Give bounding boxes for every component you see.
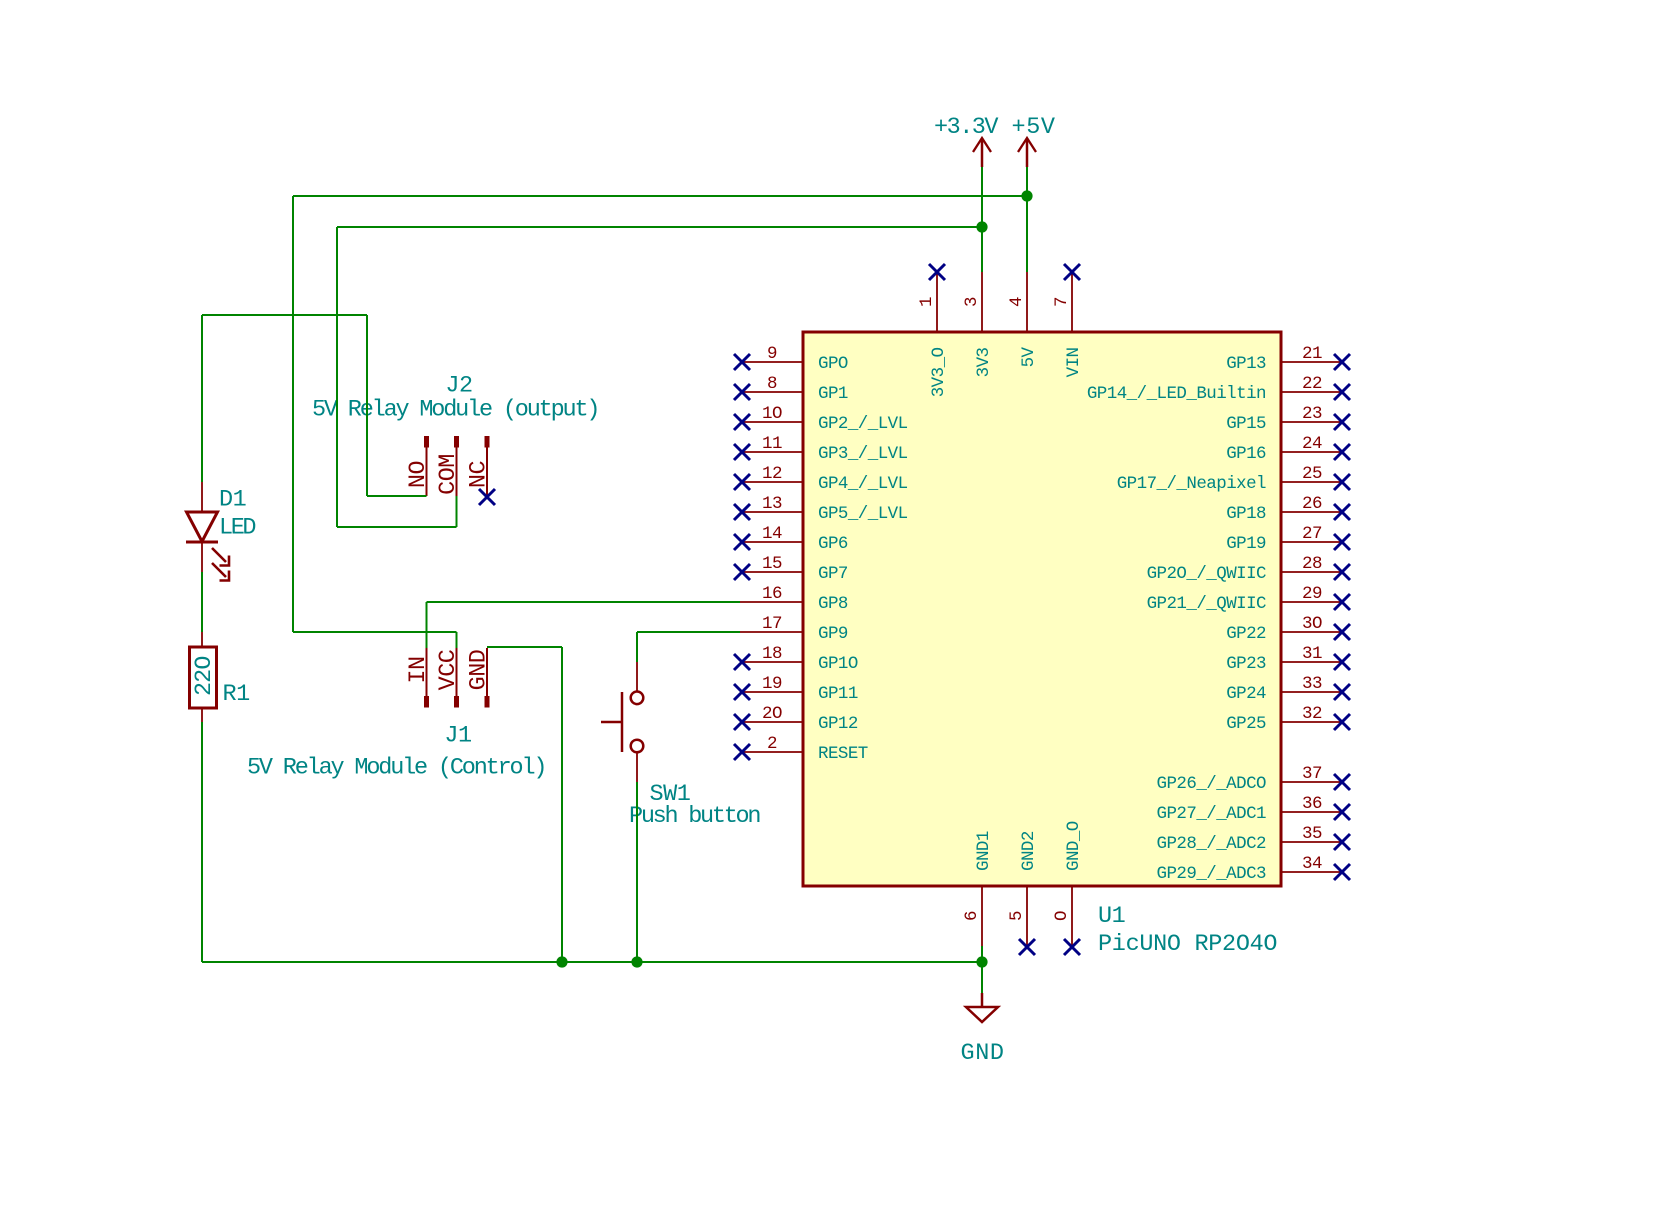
diode D1 LED (201, 482, 203, 512)
wire J1 GND vertical (561, 647, 563, 962)
U1 pin 35 GP28_/_ADC2 (right) (1281, 841, 1340, 843)
svg-text:9: 9 (767, 344, 777, 364)
wire VCC stub to J1 VCC (456, 632, 458, 648)
svg-text:COM: COM (435, 454, 462, 495)
wire +3.3V left vertical (336, 227, 338, 527)
svg-text:GP24: GP24 (1226, 684, 1266, 704)
svg-text:1: 1 (917, 297, 937, 307)
svg-text:GP2O_/_QWIIC: GP2O_/_QWIIC (1147, 564, 1266, 584)
U1 pin 12 GP4_/_LVL (left) (740, 481, 803, 483)
U1 pin 26 GP18 (right) (1281, 511, 1340, 513)
wire +5V horizontal (293, 195, 1027, 197)
wire SW1 to ground bus (636, 782, 638, 962)
U1 pin 3 3V3 (top) (981, 272, 983, 332)
svg-text:3V3_O: 3V3_O (929, 347, 949, 397)
svg-text:5V: 5V (1019, 346, 1039, 367)
U1 pin 23 GP15 (right) (1281, 421, 1340, 423)
svg-text:37: 37 (1302, 764, 1322, 784)
U1 pin 5 GND2 (bottom) (1026, 886, 1028, 946)
junction ground bus at J1 GND wire (556, 956, 567, 967)
junction ground bus at SW1 wire (631, 956, 642, 967)
svg-text:RESET: RESET (818, 744, 868, 764)
svg-text:25: 25 (1302, 464, 1322, 484)
svg-text:3O: 3O (1302, 614, 1322, 634)
svg-text:2: 2 (767, 734, 777, 754)
wire +5V left vertical (292, 196, 294, 632)
svg-text:R1: R1 (223, 681, 250, 708)
svg-text:11: 11 (762, 434, 782, 454)
svg-text:6: 6 (962, 911, 982, 921)
svg-text:GP25: GP25 (1226, 714, 1266, 734)
svg-text:GP11: GP11 (818, 684, 858, 704)
U1 pin 6 GND1 (bottom) (981, 886, 983, 946)
svg-text:NC: NC (466, 461, 493, 489)
svg-text:34: 34 (1302, 854, 1322, 874)
svg-text:GP18: GP18 (1226, 504, 1266, 524)
svg-text:27: 27 (1302, 524, 1322, 544)
svg-text:GP6: GP6 (818, 534, 848, 554)
svg-text:PicUNO RP2O4O: PicUNO RP2O4O (1098, 931, 1277, 958)
svg-text:GP8: GP8 (818, 594, 848, 614)
U1 pin 25 GP17_/_Neapixel (right) (1281, 481, 1340, 483)
U1 pin O GND_O (bottom) (1071, 886, 1073, 946)
svg-text:GP16: GP16 (1226, 444, 1266, 464)
junction +5V net (1021, 190, 1032, 201)
wire NO vertical (366, 315, 368, 496)
svg-text:5V Relay Module (Control): 5V Relay Module (Control) (247, 755, 547, 782)
svg-text:14: 14 (762, 524, 782, 544)
svg-text:LED: LED (219, 515, 256, 542)
svg-text:GP9: GP9 (818, 624, 848, 644)
svg-text:J2: J2 (445, 373, 472, 400)
svg-text:GND2: GND2 (1019, 831, 1039, 871)
junction ground bus at GND1 (976, 956, 987, 967)
wire +5V vertical to pin 4 (1026, 167, 1028, 272)
svg-text:GP2_/_LVL: GP2_/_LVL (818, 414, 908, 434)
svg-text:1O: 1O (762, 404, 782, 424)
svg-text:22O: 22O (191, 656, 218, 696)
svg-text:29: 29 (1302, 584, 1322, 604)
U1 pin 27 GP19 (right) (1281, 541, 1340, 543)
svg-text:GP28_/_ADC2: GP28_/_ADC2 (1157, 834, 1267, 854)
U1 pin 37 GP26_/_ADCO (right) (1281, 781, 1340, 783)
switch SW1 Push button (636, 662, 638, 691)
U1 pin 4 5V (top) (1026, 272, 1028, 332)
svg-text:GP1O: GP1O (818, 654, 858, 674)
wire +3.3V vertical to pin 3 (981, 167, 983, 272)
wire GP9 stub to SW1 (636, 632, 638, 662)
svg-text:17: 17 (762, 614, 782, 634)
wire GP8 horizontal (427, 601, 741, 603)
svg-text:GND1: GND1 (974, 831, 994, 871)
U1 pin 2 RESET (left) (740, 751, 803, 753)
wire R1 to ground bus (201, 722, 203, 962)
svg-text:GP4_/_LVL: GP4_/_LVL (818, 474, 908, 494)
U1 pin 1 3V3_O (top) (936, 272, 938, 332)
svg-text:+3.3V: +3.3V (934, 114, 998, 141)
wire COM stub from J2 COM (456, 496, 458, 527)
junction +3.3V net (976, 221, 987, 232)
U1 pin 11 GP3_/_LVL (left) (740, 451, 803, 453)
svg-text:GND: GND (961, 1040, 1004, 1067)
U1 pin 15 GP7 (left) (740, 571, 803, 573)
resistor R1 220 (201, 632, 203, 648)
svg-text:22: 22 (1302, 374, 1322, 394)
power +3.3V symbol (981, 138, 984, 167)
svg-text:NO: NO (405, 461, 432, 488)
U1 pin 17 GP9 (left) (740, 631, 803, 633)
svg-text:GND: GND (466, 650, 493, 691)
svg-text:16: 16 (762, 584, 782, 604)
svg-text:23: 23 (1302, 404, 1322, 424)
wire COM horizontal (337, 526, 457, 528)
U1 pin 21 GP13 (right) (1281, 361, 1340, 363)
svg-text:GPO: GPO (818, 354, 848, 374)
J2 pin 2 COM (454, 436, 459, 448)
U1 pin 33 GP24 (right) (1281, 691, 1340, 693)
wire GP9 horizontal (637, 631, 740, 633)
svg-text:8: 8 (767, 374, 777, 394)
wire ground bus horizontal (202, 961, 982, 963)
U1 pin 24 GP16 (right) (1281, 451, 1340, 453)
svg-text:J1: J1 (444, 723, 471, 750)
svg-text:GP15: GP15 (1226, 414, 1266, 434)
U1 pin 31 GP23 (right) (1281, 661, 1340, 663)
svg-text:3: 3 (962, 297, 982, 307)
svg-text:18: 18 (762, 644, 782, 664)
svg-text:24: 24 (1302, 434, 1322, 454)
svg-text:+5V: +5V (1012, 114, 1055, 141)
U1 pin 22 GP14_/_LED_Builtin (right) (1281, 391, 1340, 393)
IC U1 body (PicUNO RP2040) (803, 332, 1281, 886)
U1 pin 18 GP1O (left) (740, 661, 803, 663)
svg-text:Push button: Push button (629, 803, 761, 830)
svg-text:36: 36 (1302, 794, 1322, 814)
wire D1 to R1 (201, 572, 203, 632)
svg-text:U1: U1 (1098, 903, 1125, 930)
U1 pin 34 GP29_/_ADC3 (right) (1281, 871, 1340, 873)
wire J1 GND horizontal (487, 646, 562, 648)
J2 pin 3 NC (485, 436, 490, 448)
svg-text:GP19: GP19 (1226, 534, 1266, 554)
U1 pin 2O GP12 (left) (740, 721, 803, 723)
svg-text:35: 35 (1302, 824, 1322, 844)
U1 pin 8 GP1 (left) (740, 391, 803, 393)
ground GND symbol (981, 993, 984, 1007)
svg-text:VIN: VIN (1064, 347, 1084, 377)
wire GND1 to ground symbol (981, 946, 983, 993)
svg-text:GP5_/_LVL: GP5_/_LVL (818, 504, 908, 524)
svg-text:28: 28 (1302, 554, 1322, 574)
svg-text:33: 33 (1302, 674, 1322, 694)
svg-text:GP1: GP1 (818, 384, 848, 404)
svg-text:26: 26 (1302, 494, 1322, 514)
svg-text:GP22: GP22 (1226, 624, 1266, 644)
svg-text:GP14_/_LED_Builtin: GP14_/_LED_Builtin (1087, 384, 1266, 404)
svg-text:D1: D1 (219, 487, 246, 514)
svg-text:VCC: VCC (435, 649, 462, 690)
svg-text:GND_O: GND_O (1064, 821, 1084, 871)
U1 pin 1O GP2_/_LVL (left) (740, 421, 803, 423)
U1 pin 28 GP2O_/_QWIIC (right) (1281, 571, 1340, 573)
svg-text:12: 12 (762, 464, 782, 484)
svg-text:13: 13 (762, 494, 782, 514)
U1 pin 3O GP22 (right) (1281, 631, 1340, 633)
U1 pin 32 GP25 (right) (1281, 721, 1340, 723)
U1 pin 16 GP8 (left) (740, 601, 803, 603)
svg-text:5V Relay Module (output): 5V Relay Module (output) (312, 397, 600, 424)
svg-text:O: O (1052, 911, 1072, 921)
svg-text:GP27_/_ADC1: GP27_/_ADC1 (1157, 804, 1267, 824)
svg-text:5: 5 (1007, 911, 1027, 921)
svg-text:GP13: GP13 (1226, 354, 1266, 374)
svg-text:19: 19 (762, 674, 782, 694)
U1 pin 9 GPO (left) (740, 361, 803, 363)
svg-text:7: 7 (1052, 297, 1072, 307)
svg-text:GP17_/_Neapixel: GP17_/_Neapixel (1117, 474, 1266, 494)
svg-text:GP7: GP7 (818, 564, 848, 584)
svg-text:4: 4 (1007, 297, 1027, 307)
svg-text:3V3: 3V3 (974, 347, 994, 377)
wire anode horizontal (202, 314, 367, 316)
U1 pin 14 GP6 (left) (740, 541, 803, 543)
wire anode vertical to D1 (201, 315, 203, 482)
svg-text:GP29_/_ADC3: GP29_/_ADC3 (1157, 864, 1267, 884)
J2 pin 1 NO (424, 436, 429, 448)
wire GP8 stub to J1 IN (426, 602, 428, 648)
wire +3.3V horizontal (337, 226, 982, 228)
no-connect x on J2 NC (479, 489, 495, 505)
wire NO horizontal from J2 NO (367, 495, 427, 497)
U1 pin 36 GP27_/_ADC1 (right) (1281, 811, 1340, 813)
svg-text:GP3_/_LVL: GP3_/_LVL (818, 444, 908, 464)
svg-text:GP12: GP12 (818, 714, 858, 734)
svg-text:GP21_/_QWIIC: GP21_/_QWIIC (1147, 594, 1266, 614)
svg-text:GP26_/_ADCO: GP26_/_ADCO (1157, 774, 1267, 794)
svg-text:21: 21 (1302, 344, 1322, 364)
svg-text:31: 31 (1302, 644, 1322, 664)
svg-text:32: 32 (1302, 704, 1322, 724)
U1 pin 7 VIN (top) (1071, 272, 1073, 332)
U1 pin 13 GP5_/_LVL (left) (740, 511, 803, 513)
svg-text:IN: IN (405, 656, 432, 683)
svg-text:15: 15 (762, 554, 782, 574)
J1 pin 2 VCC (454, 696, 459, 708)
J1 pin 1 IN (424, 696, 429, 708)
U1 pin 19 GP11 (left) (740, 691, 803, 693)
wire VCC horizontal (293, 631, 457, 633)
svg-text:2O: 2O (762, 704, 782, 724)
U1 pin 29 GP21_/_QWIIC (right) (1281, 601, 1340, 603)
power +5V symbol (1026, 138, 1029, 167)
J1 pin 3 GND (485, 696, 490, 708)
svg-text:GP23: GP23 (1226, 654, 1266, 674)
